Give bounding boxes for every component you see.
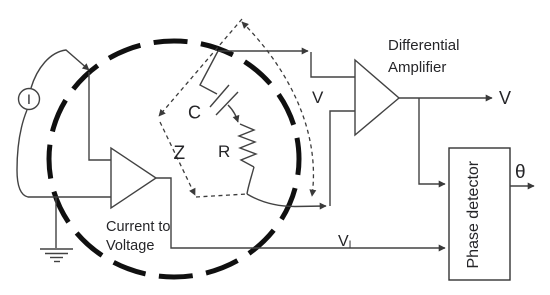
svg-text:Current to: Current to [106,219,170,235]
svg-text:Phase detector: Phase detector [465,160,482,268]
svg-text:Amplifier: Amplifier [388,59,446,76]
svg-text:Voltage: Voltage [106,238,154,254]
svg-text:Z: Z [174,143,186,164]
svg-text:C: C [188,103,201,123]
svg-text:I: I [27,91,31,107]
svg-text:V: V [499,88,511,108]
svg-text:V: V [312,88,324,107]
svg-text:θ: θ [515,162,526,183]
svg-text:Differential: Differential [388,37,459,54]
svg-text:R: R [218,142,230,161]
